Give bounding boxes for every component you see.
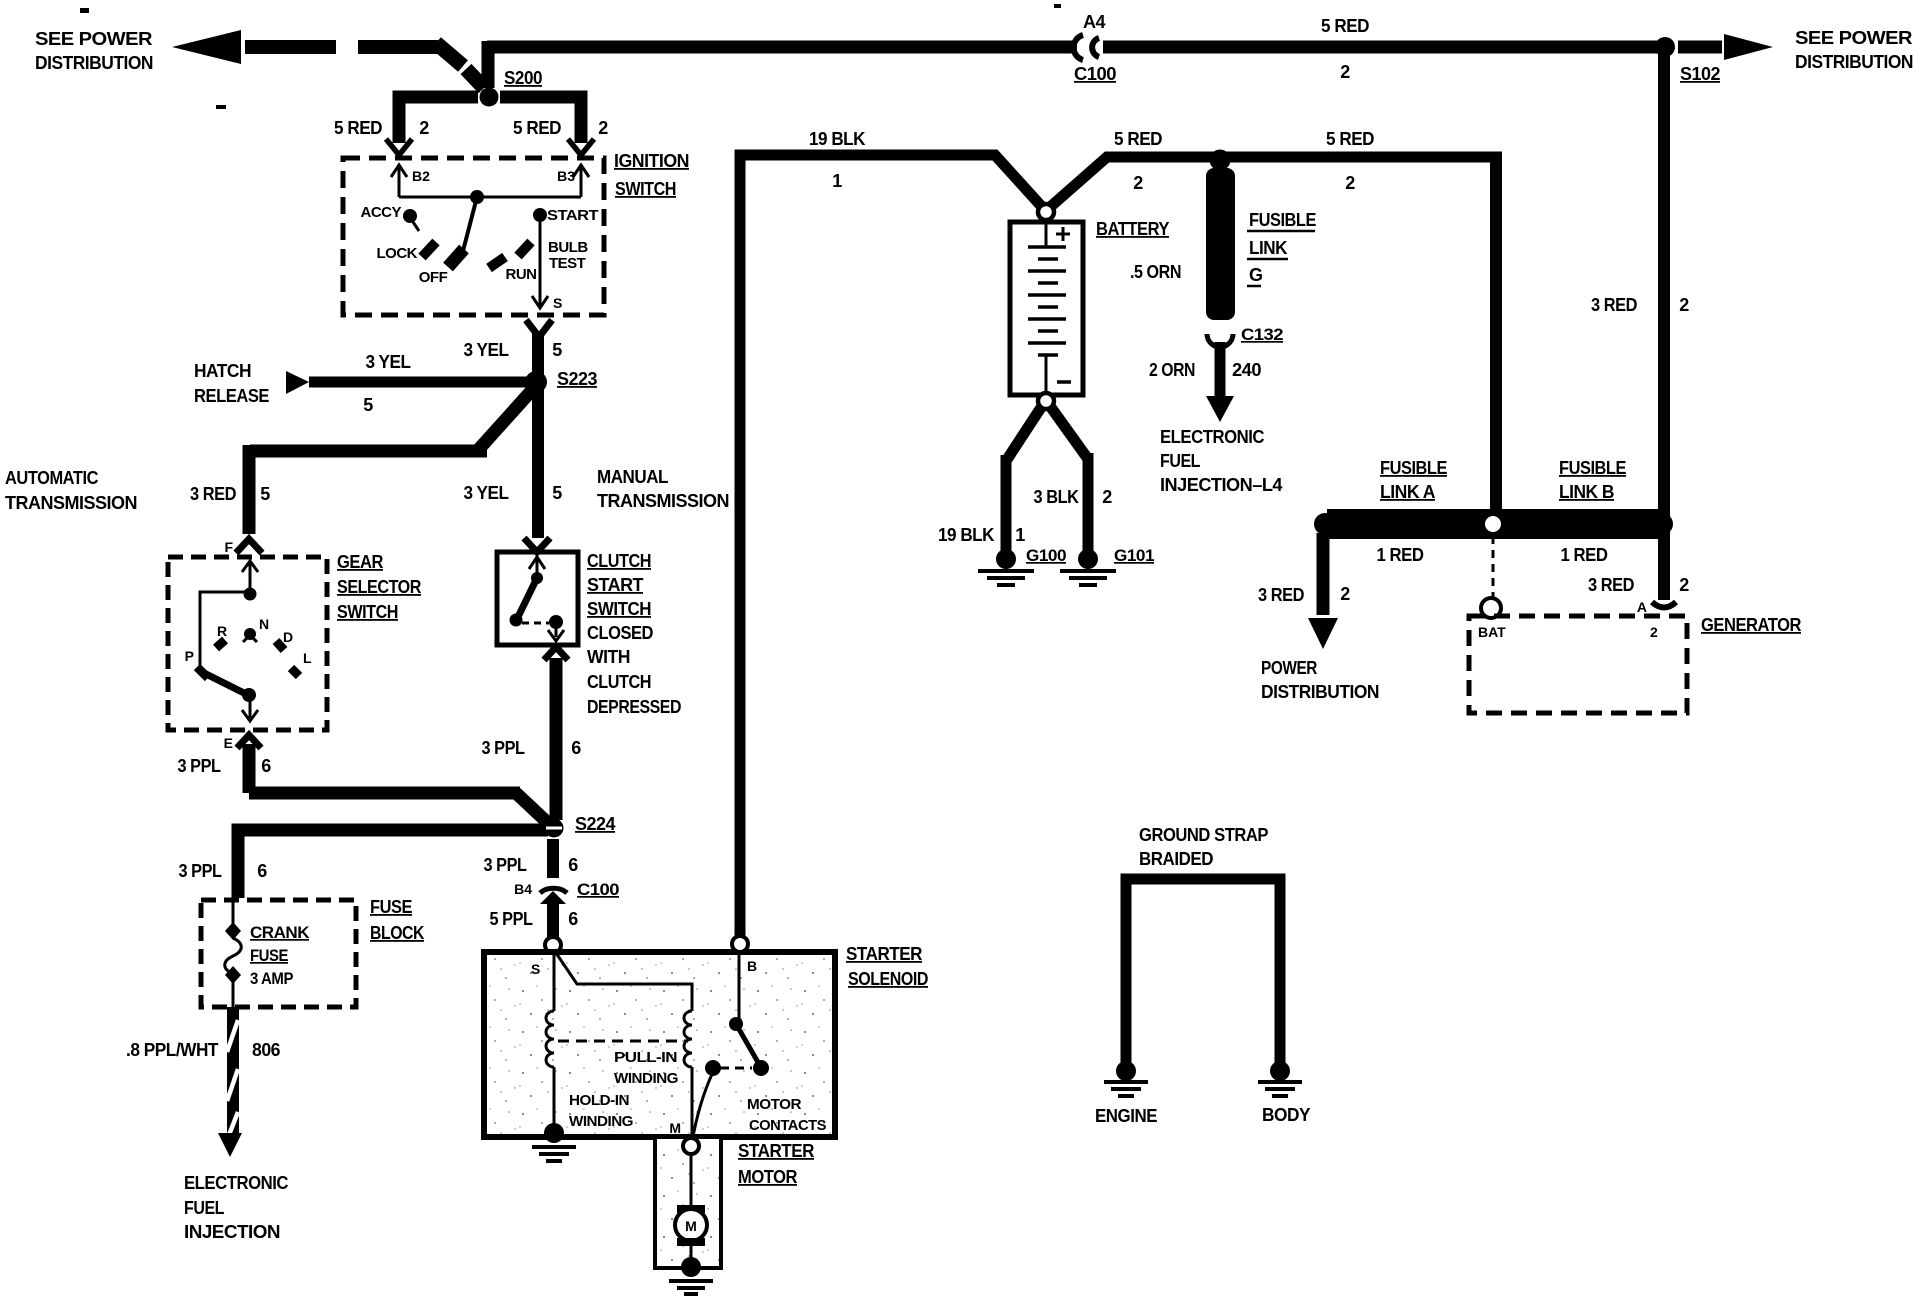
svg-text:6: 6 [257, 861, 267, 881]
svg-text:1: 1 [1015, 525, 1025, 545]
svg-text:S223: S223 [557, 369, 597, 389]
svg-text:IGNITION: IGNITION [614, 151, 689, 171]
svg-text:PULL-IN: PULL-IN [614, 1049, 677, 1066]
svg-text:2: 2 [1650, 624, 1658, 640]
svg-text:FUEL: FUEL [1160, 451, 1200, 471]
svg-text:5: 5 [552, 483, 562, 503]
svg-text:POWER: POWER [1261, 658, 1317, 678]
svg-text:6: 6 [568, 909, 578, 929]
svg-text:BODY: BODY [1262, 1105, 1310, 1125]
svg-text:D: D [283, 629, 293, 645]
svg-text:P: P [185, 648, 194, 664]
svg-text:2: 2 [1133, 173, 1143, 193]
svg-text:CONTACTS: CONTACTS [749, 1117, 826, 1134]
svg-text:19 BLK: 19 BLK [809, 129, 865, 149]
svg-text:AUTOMATIC: AUTOMATIC [5, 468, 98, 488]
svg-text:3 RED: 3 RED [1591, 295, 1637, 315]
svg-text:F: F [224, 539, 233, 555]
svg-text:BULB: BULB [548, 239, 588, 256]
svg-text:LINK A: LINK A [1380, 482, 1435, 502]
svg-text:B: B [747, 958, 757, 974]
svg-text:M: M [685, 1218, 697, 1234]
svg-text:5 RED: 5 RED [1326, 129, 1374, 149]
svg-text:DISTRIBUTION: DISTRIBUTION [1261, 682, 1379, 702]
svg-text:N: N [259, 616, 269, 632]
svg-text:5 RED: 5 RED [513, 118, 561, 138]
svg-text:S: S [531, 961, 540, 977]
svg-text:3 YEL: 3 YEL [464, 340, 509, 360]
svg-text:3 PPL: 3 PPL [179, 861, 222, 881]
svg-text:A: A [1637, 599, 1647, 615]
svg-text:GROUND STRAP: GROUND STRAP [1139, 825, 1268, 845]
svg-text:MANUAL: MANUAL [597, 467, 668, 487]
svg-text:WINDING: WINDING [569, 1113, 633, 1130]
svg-text:3 YEL: 3 YEL [464, 483, 509, 503]
svg-text:3 BLK: 3 BLK [1034, 487, 1079, 507]
svg-text:3 PPL: 3 PPL [178, 756, 221, 776]
svg-text:5 RED: 5 RED [1321, 16, 1369, 36]
svg-text:C100: C100 [577, 880, 619, 899]
svg-text:240: 240 [1232, 360, 1261, 380]
svg-text:LINK B: LINK B [1559, 482, 1614, 502]
svg-text:C100: C100 [1074, 64, 1117, 84]
svg-text:OFF: OFF [419, 269, 448, 286]
svg-text:2: 2 [1340, 62, 1350, 82]
svg-text:3 RED: 3 RED [1258, 585, 1304, 605]
svg-text:STARTER: STARTER [738, 1141, 814, 1161]
svg-text:INJECTION: INJECTION [184, 1222, 280, 1242]
svg-text:SEE POWER: SEE POWER [35, 29, 153, 49]
svg-text:FUSE: FUSE [370, 897, 412, 917]
svg-text:5: 5 [260, 484, 270, 504]
svg-text:DISTRIBUTION: DISTRIBUTION [35, 53, 153, 73]
svg-text:LOCK: LOCK [377, 245, 418, 262]
svg-text:G101: G101 [1114, 546, 1154, 565]
svg-text:ACCY: ACCY [360, 204, 401, 221]
svg-text:G: G [1249, 265, 1263, 285]
svg-text:A4: A4 [1083, 12, 1105, 32]
svg-text:START: START [587, 575, 643, 595]
svg-text:START: START [547, 207, 598, 224]
svg-text:1 RED: 1 RED [1561, 545, 1608, 565]
svg-text:INJECTION–L4: INJECTION–L4 [1160, 475, 1282, 495]
svg-text:3 RED: 3 RED [1588, 575, 1634, 595]
svg-text:2: 2 [1102, 487, 1112, 507]
svg-text:DISTRIBUTION: DISTRIBUTION [1795, 52, 1913, 72]
svg-text:MOTOR: MOTOR [747, 1096, 802, 1113]
svg-text:5 RED: 5 RED [1114, 129, 1162, 149]
svg-text:5: 5 [363, 395, 373, 415]
svg-text:BLOCK: BLOCK [370, 923, 424, 943]
svg-text:2: 2 [1340, 584, 1350, 604]
svg-text:2: 2 [1345, 173, 1355, 193]
svg-text:WINDING: WINDING [614, 1070, 678, 1087]
svg-text:TRANSMISSION: TRANSMISSION [5, 493, 137, 513]
svg-text:806: 806 [252, 1040, 280, 1060]
svg-text:3 PPL: 3 PPL [482, 738, 525, 758]
svg-text:2: 2 [1679, 575, 1689, 595]
svg-text:BRAIDED: BRAIDED [1139, 849, 1213, 869]
svg-text:2: 2 [1679, 295, 1689, 315]
svg-text:B2: B2 [412, 168, 430, 184]
svg-text:3 AMP: 3 AMP [250, 969, 293, 988]
svg-text:1 RED: 1 RED [1377, 545, 1424, 565]
svg-text:LINK: LINK [1249, 238, 1287, 258]
svg-text:GEAR: GEAR [337, 552, 383, 572]
svg-text:FUSIBLE: FUSIBLE [1249, 210, 1316, 230]
svg-text:TEST: TEST [549, 255, 586, 272]
svg-text:.5 ORN: .5 ORN [1130, 262, 1181, 282]
svg-text:SOLENOID: SOLENOID [848, 969, 928, 989]
svg-text:TRANSMISSION: TRANSMISSION [597, 491, 729, 511]
svg-text:3 YEL: 3 YEL [366, 352, 411, 372]
svg-text:CLUTCH: CLUTCH [587, 551, 651, 571]
svg-text:GENERATOR: GENERATOR [1701, 615, 1801, 635]
svg-text:FUSIBLE: FUSIBLE [1380, 458, 1447, 478]
svg-text:6: 6 [261, 756, 271, 776]
svg-text:CLOSED: CLOSED [587, 623, 653, 643]
svg-text:S102: S102 [1680, 64, 1720, 84]
svg-text:5: 5 [552, 340, 562, 360]
svg-text:S: S [553, 295, 562, 311]
svg-text:WITH: WITH [587, 647, 630, 667]
svg-text:SWITCH: SWITCH [615, 179, 676, 199]
svg-text:BAT: BAT [1478, 624, 1506, 640]
svg-text:C132: C132 [1241, 325, 1283, 344]
svg-text:SWITCH: SWITCH [337, 602, 398, 622]
svg-text:3 RED: 3 RED [190, 484, 236, 504]
svg-text:5 PPL: 5 PPL [490, 909, 533, 929]
svg-text:S200: S200 [504, 68, 542, 88]
svg-text:RUN: RUN [506, 266, 537, 283]
svg-text:FUEL: FUEL [184, 1198, 224, 1218]
svg-text:G100: G100 [1026, 546, 1066, 565]
svg-text:SWITCH: SWITCH [587, 599, 651, 619]
svg-text:M: M [669, 1120, 681, 1136]
svg-text:MOTOR: MOTOR [738, 1167, 797, 1187]
svg-text:6: 6 [571, 738, 581, 758]
svg-text:2: 2 [598, 118, 608, 138]
svg-text:S224: S224 [575, 814, 615, 834]
svg-text:RELEASE: RELEASE [194, 386, 269, 406]
svg-text:STARTER: STARTER [846, 944, 922, 964]
svg-text:2: 2 [419, 118, 429, 138]
svg-text:19 BLK: 19 BLK [938, 525, 994, 545]
svg-text:1: 1 [832, 171, 842, 191]
svg-text:.8 PPL/WHT: .8 PPL/WHT [126, 1040, 218, 1060]
svg-text:3 PPL: 3 PPL [484, 855, 527, 875]
svg-text:B4: B4 [514, 881, 532, 897]
svg-text:ENGINE: ENGINE [1095, 1106, 1157, 1126]
svg-text:L: L [303, 650, 312, 666]
svg-text:BATTERY: BATTERY [1096, 219, 1169, 239]
svg-text:CLUTCH: CLUTCH [587, 672, 651, 692]
svg-text:B3: B3 [557, 168, 575, 184]
svg-text:CRANK: CRANK [250, 923, 310, 942]
svg-text:E: E [224, 735, 233, 751]
svg-text:HOLD-IN: HOLD-IN [569, 1092, 629, 1109]
svg-text:2 ORN: 2 ORN [1149, 360, 1195, 380]
svg-text:DEPRESSED: DEPRESSED [587, 697, 681, 717]
svg-text:HATCH: HATCH [194, 361, 251, 381]
svg-text:SELECTOR: SELECTOR [337, 577, 421, 597]
svg-text:ELECTRONIC: ELECTRONIC [1160, 427, 1264, 447]
svg-text:SEE POWER: SEE POWER [1795, 28, 1913, 48]
svg-text:ELECTRONIC: ELECTRONIC [184, 1173, 288, 1193]
svg-text:5 RED: 5 RED [334, 118, 382, 138]
svg-text:R: R [217, 623, 227, 639]
svg-text:6: 6 [568, 855, 578, 875]
svg-text:FUSIBLE: FUSIBLE [1559, 458, 1626, 478]
svg-text:FUSE: FUSE [250, 946, 288, 965]
